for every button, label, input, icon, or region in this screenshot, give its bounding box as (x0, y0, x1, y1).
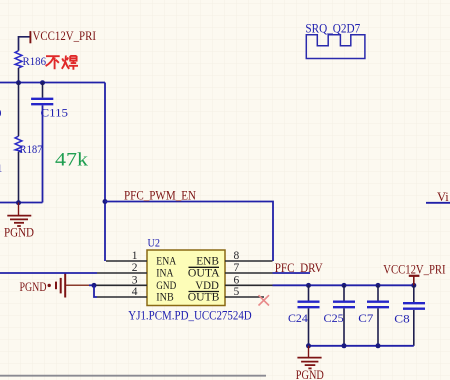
junction C7 bottom (376, 343, 381, 348)
pin 8 (225, 250, 273, 262)
svg-text:47k: 47k (55, 151, 89, 171)
power port VCC12V_PRI (top left) (27, 28, 97, 43)
svg-text:VCC12V_PRI: VCC12V_PRI (33, 28, 97, 43)
svg-text:2: 2 (132, 262, 138, 274)
capacitor C115 (31, 83, 53, 203)
junction C25 bottom (342, 343, 347, 348)
svg-text:C24: C24 (288, 311, 308, 325)
svg-text:C8: C8 (394, 312, 409, 326)
sheet border line (bottom) (0, 375, 266, 377)
svg-text:PGND: PGND (296, 368, 324, 380)
svg-text:SRQ_Q2D7: SRQ_Q2D7 (305, 22, 360, 36)
svg-text:6: 6 (234, 274, 240, 286)
svg-text:YJ1.PCM.PD_UCC27524D: YJ1.PCM.PD_UCC27524D (128, 308, 251, 322)
junction C25 top (342, 283, 347, 288)
junction C24 top (306, 283, 311, 288)
pin 6 (225, 274, 273, 286)
svg-text:PGND: PGND (4, 225, 34, 240)
svg-text:3: 3 (132, 274, 138, 286)
wire pin4 jog (94, 285, 97, 297)
wire PFC_PWM_EN (105, 202, 273, 262)
pin 2 (97, 262, 147, 274)
svg-text:8: 8 (234, 250, 240, 262)
capacitor C25 (324, 285, 356, 346)
wire Vin (right edge) (426, 202, 450, 204)
wire PFC_DRV (273, 272, 311, 274)
svg-text:R186: R186 (23, 54, 47, 68)
svg-text:9: 9 (0, 106, 2, 120)
ground PGND (left) (7, 203, 31, 227)
svg-text:4: 4 (132, 286, 138, 298)
component U2 body (147, 250, 225, 306)
junction C7 top (376, 283, 381, 288)
junction at R186 bottom (16, 80, 21, 85)
wire bottom left (0, 202, 43, 204)
junction pin3/pin4 (92, 283, 97, 288)
svg-text:OUTB: OUTB (188, 290, 220, 304)
svg-text:1: 1 (0, 161, 3, 175)
junction at C115 top (40, 80, 45, 85)
power port PGND (at pin3) (20, 274, 66, 298)
resistor R186 (15, 51, 22, 83)
wire pin2 to edge (0, 272, 97, 274)
pin name VDD with bar (189, 278, 220, 292)
svg-text:1: 1 (132, 250, 138, 262)
power port VCC12V_PRI (right) (383, 261, 445, 285)
junction VCC stem (411, 283, 416, 288)
junction C24 bottom (306, 343, 311, 348)
junction ground node (16, 200, 21, 205)
ground PGND (bottom) (297, 346, 321, 369)
pin name ENB with bar (189, 254, 220, 268)
pin 7 (225, 262, 273, 274)
wire top horizontal (0, 82, 105, 84)
svg-text:C115: C115 (41, 106, 69, 120)
wire capacitor bottoms (309, 345, 414, 347)
svg-text:PGND: PGND (20, 279, 47, 294)
svg-text:7: 7 (234, 262, 240, 274)
svg-text:INB: INB (156, 290, 173, 304)
resistor R187 (15, 83, 22, 203)
wire PGND lead (66, 284, 89, 286)
svg-text:C7: C7 (358, 311, 373, 325)
red annotation 不焊 (46, 56, 78, 70)
pin 5 (225, 286, 264, 298)
capacitor C7 (358, 285, 389, 346)
connector crown shape (306, 35, 365, 59)
pin 1 (106, 250, 147, 262)
wire pin3 stub (89, 284, 96, 286)
pin 3 (96, 274, 147, 286)
svg-text:5: 5 (234, 286, 240, 298)
no-ERC cross on pin 5 (259, 295, 270, 305)
svg-text:VCC12V_PRI: VCC12V_PRI (383, 261, 445, 276)
svg-text:C25: C25 (324, 311, 344, 325)
svg-text:U2: U2 (148, 236, 161, 250)
svg-text:Vi: Vi (437, 190, 449, 204)
capacitor C8 (394, 285, 425, 346)
wire down right branch (104, 83, 106, 262)
junction PFC_PWM_EN node (103, 199, 108, 204)
svg-text:PFC_PWM_EN: PFC_PWM_EN (124, 189, 196, 203)
capacitor C24 (288, 285, 320, 346)
wire VDD rail (273, 284, 414, 286)
svg-text:R187: R187 (20, 142, 43, 156)
wire VCC to R186 (19, 37, 30, 51)
pin 4 (97, 286, 147, 298)
